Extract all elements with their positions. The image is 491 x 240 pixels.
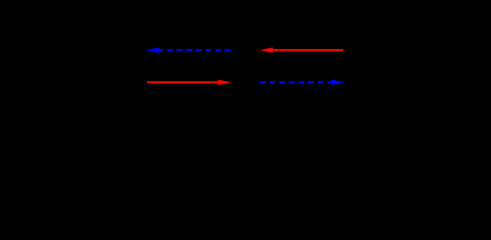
arrow A1: top-left blue dashed arrow pointing left: [146, 47, 231, 52]
arrow A3: bottom-left red solid arrow pointing right: [147, 80, 231, 85]
arrow A2: top-right red solid arrow pointing left: [260, 47, 343, 52]
arrow A4: bottom-right blue dashed arrow pointing right: [260, 80, 344, 85]
